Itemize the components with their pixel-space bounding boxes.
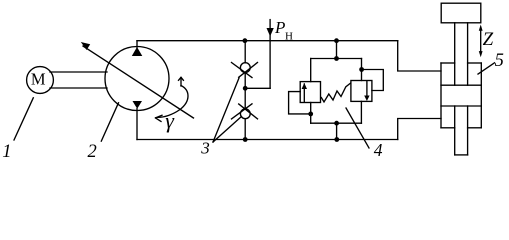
svg-text:1: 1 — [2, 142, 11, 162]
svg-text:5: 5 — [495, 51, 504, 71]
svg-text:3: 3 — [200, 138, 210, 157]
svg-text:γ: γ — [165, 108, 175, 133]
svg-text:Z: Z — [483, 29, 494, 50]
svg-text:4: 4 — [374, 140, 383, 160]
svg-text:2: 2 — [88, 142, 97, 162]
svg-text:H: H — [285, 31, 293, 43]
svg-text:P: P — [274, 18, 285, 37]
svg-text:M: M — [31, 69, 46, 88]
